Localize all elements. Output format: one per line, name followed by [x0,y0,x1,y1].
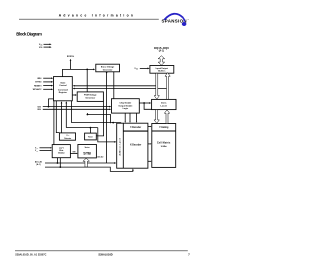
box Y-Gating and Cell Matrix column [152,124,176,168]
svg-text:Logic: Logic [123,108,129,110]
svg-text:CC: CC [136,68,138,70]
svg-text:Output Enable: Output Enable [118,105,133,108]
wire X-decoder to cell matrix 1 [148,143,152,144]
wire data bus to command register 1 [73,85,156,87]
wire VCC arrow [44,43,52,45]
node turndown junction [112,122,114,124]
wire rail A chip enable to decoder column [87,113,110,123]
net A-1 label on bus [97,155,103,158]
footer rule [15,250,188,252]
label Y-Gating [159,126,169,129]
svg-text:16 Mbit: 16 Mbit [161,145,168,148]
net VSS label [39,47,42,49]
wire OE# rail [43,108,112,110]
net Vss label at inhibitor [35,150,38,152]
svg-text:S29AL016D: S29AL016D [98,252,112,256]
svg-text:DQ15–DQ0: DQ15–DQ0 [154,46,169,50]
wire state control to PGM generator [72,94,77,96]
wire PGM generator to timer [96,101,103,135]
net OE# label [37,109,42,111]
net Vcc label at inhibitor [35,148,38,150]
bus address line 1 [45,162,116,164]
svg-text:Detector: Detector [64,137,71,140]
svg-text:Y-Gating: Y-Gating [159,126,169,129]
bus address line 2 wrap to column bottom [45,167,134,171]
svg-text:Inhibitor: Inhibitor [58,151,65,154]
svg-text:Latch: Latch [160,105,167,108]
svg-text:(A-1): (A-1) [159,50,165,53]
net WE# label [37,78,42,80]
svg-text:RESET#: RESET# [34,85,42,87]
wire junction to timer box [89,128,91,134]
wire STB to data latch [139,102,151,104]
box Low Vcc Write Inhibitor U-LV [52,145,70,158]
svg-text:Y-Decoder: Y-Decoder [130,126,141,129]
wire rail B state control to decoder column [71,101,113,123]
bus I/O buffers to data latch down arrow [154,73,159,99]
wire inhibitor to STB box [70,151,77,154]
node CE# junction [48,106,50,108]
wire CE# branch to state control [49,99,54,107]
svg-text:BYTE#: BYTE# [35,82,42,84]
wire chip enable to Y-decoder 1 [125,113,126,123]
svg-text:Block Diagram: Block Diagram [16,31,42,36]
node rail junction to PGM generator [86,69,88,71]
wire erase generator to address bus [106,72,107,163]
box STB U-STB [78,145,97,158]
wire state-control to erase-voltage-generator rail [63,69,96,77]
wire chip enable to Y-decoder 3 [136,113,137,123]
svg-text:WP#/ACC: WP#/ACC [33,88,42,91]
wire WP#/ACC arrow [43,88,53,90]
footer page number [188,253,190,257]
svg-text:Control: Control [59,84,67,87]
label Address Latch vertical [118,137,121,155]
box Input/Output Buffers U-IOB [150,66,174,74]
net RESET# label [34,85,42,87]
wire VSS arrow [44,46,52,48]
label X-Decoder [130,143,141,146]
net A19-A0 label [35,161,42,167]
svg-text:X-Decoder: X-Decoder [130,143,141,146]
bus data latch to I/O buffers up arrow [165,73,170,100]
net CE# label [37,106,42,108]
bus address hollow arrow to STB box [83,158,90,167]
wire tap to inhibitor [56,158,58,163]
net RY/BY# label [67,56,75,58]
Spansion logo arc [164,14,186,26]
svg-text:Cell Matrix: Cell Matrix [157,142,171,145]
header text Advance Information [59,14,136,18]
wire chip enable to Y-decoder 2 [129,113,130,123]
wire timer rail to address latch [98,128,117,143]
net BYTE# label [35,82,42,84]
svg-text:CC: CC [40,44,42,46]
label Cell Matrix [157,142,171,148]
svg-text:Buffers: Buffers [158,70,166,73]
Spansion logo text [162,18,190,23]
node address line2 tap [59,166,61,168]
svg-text:S29AL016D_00_A1 25307C: S29AL016D_00_A1 25307C [15,253,46,256]
svg-text:Generator: Generator [103,68,113,71]
svg-text:RY/BY#: RY/BY# [67,56,75,58]
wire state control to low-vcc inhibitor [53,101,55,145]
bus Y-gating to data latch up arrow [164,110,169,124]
svg-text:Generator: Generator [85,96,95,99]
svg-text:Address Latch: Address Latch [118,137,121,155]
box Chip Enable Output Enable Logic U-CE [112,99,140,113]
wire timer rail to state control [65,101,67,127]
wire Vss arrow into inhibitor [40,150,53,151]
wire BYTE# arrow [43,81,53,83]
wire STB branch under data latch [144,103,152,109]
wire timer rail [66,127,98,129]
wire state control to vcc detector corner [56,101,59,133]
svg-text:Erase Voltage: Erase Voltage [101,66,115,69]
box VCC Detector U-VD [59,133,75,140]
svg-text:Chip Enable: Chip Enable [119,103,132,105]
svg-text:Data: Data [161,102,167,105]
wire RESET# arrow [43,85,53,87]
net WP#/ACC label [33,88,42,91]
wire RY/BY# output [70,59,72,70]
bus DQ hollow double arrow [158,56,165,65]
box PGM Voltage Generator U-PGM [77,92,103,102]
net Vcc label at I/O buffers [134,68,138,70]
svg-text:(A-1): (A-1) [36,163,40,166]
wire CE# rail [43,106,112,108]
svg-text:Timer: Timer [88,137,93,139]
svg-text:PGM Voltage: PGM Voltage [84,94,97,97]
title Block Diagram [16,31,42,36]
svg-text:CC: CC [68,135,70,137]
wire Vcc arrow into I/O buffers [140,68,150,70]
label Y-Decoder [130,126,141,129]
svg-text:Register: Register [59,91,67,94]
wire Y-decoder to Y-gating [148,126,152,127]
node address line1 tap [57,162,59,164]
wire X-decoder to cell matrix 2 [148,161,152,162]
svg-text:SS: SS [36,150,38,152]
net DQ15-DQ0 (A-1) label [154,46,169,53]
footer part number [98,252,112,256]
bus data latch to Y-gating down arrow [154,110,159,124]
box State Control Command Register U-SC [54,77,73,101]
node timer rail junction [90,127,92,129]
wire tap2 to inhibitor [59,158,61,167]
footer document id [15,253,46,256]
svg-text:Advance Information: Advance Information [59,14,136,18]
box Erase Voltage Generator U-EVG [96,64,120,72]
svg-text:SS: SS [40,47,42,49]
svg-text:Input/Output: Input/Output [156,67,169,70]
wire rail to PGM voltage generator [86,69,88,92]
wire rail B turndown to address latch [113,122,121,124]
svg-text:STB: STB [83,151,91,155]
header rule [19,18,159,20]
box Data Latch U-DL [152,99,176,109]
box Timer U-TM [85,133,97,140]
node rail A junction [87,114,89,116]
svg-text:CC: CC [36,148,38,150]
node STB junction [143,102,145,104]
wire data bus to command register 2 [73,88,167,90]
wire VCC detector to state control [61,101,63,133]
net VCC label [39,44,43,46]
box Address Latch X/Y Decoder column [117,123,148,168]
wire Vcc arrow into inhibitor [40,147,53,148]
wire WE# arrow [43,77,53,79]
wire erase generator to chip enable logic [113,72,115,99]
